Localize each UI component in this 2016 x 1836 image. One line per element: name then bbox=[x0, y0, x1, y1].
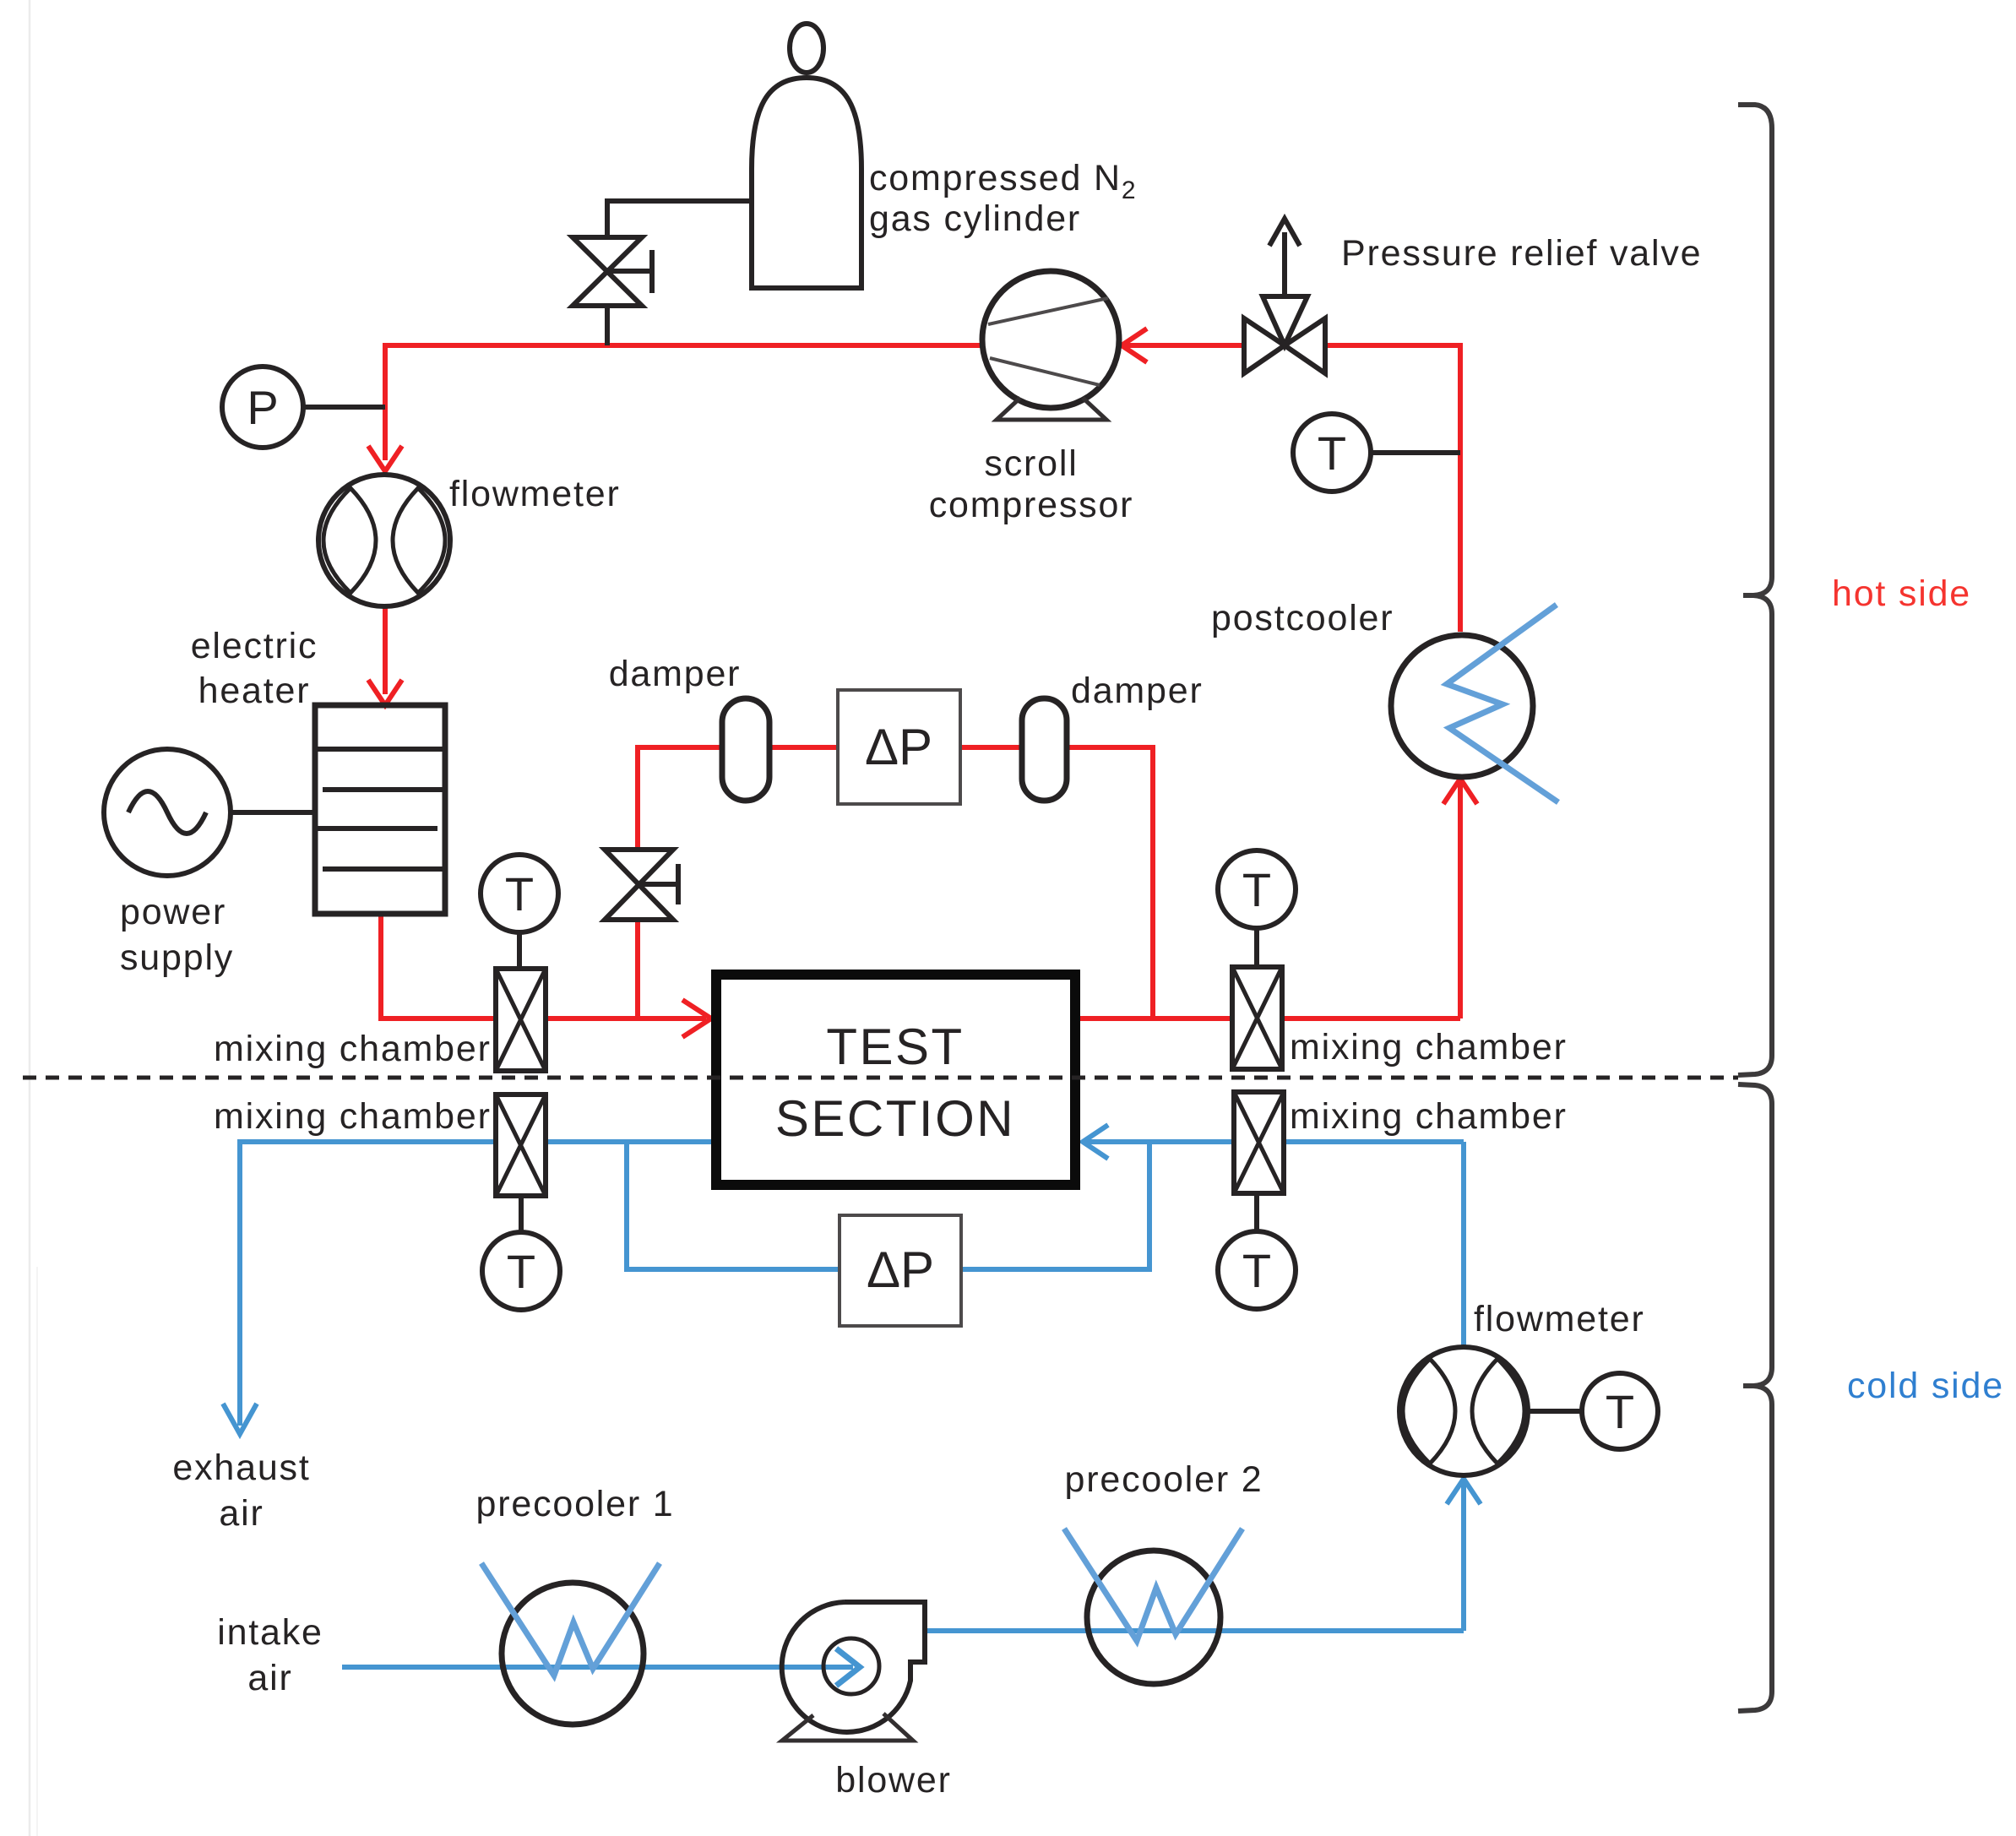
svg-text:precooler 1: precooler 1 bbox=[476, 1484, 675, 1524]
label Pressure relief valve bbox=[1341, 233, 1702, 274]
mixing chamber right hot bbox=[1232, 967, 1282, 1069]
label compressed N2 gas cylinder bbox=[869, 158, 1137, 239]
temperature sensor T3 (hot outlet) bbox=[1218, 850, 1296, 966]
svg-text:SECTION: SECTION bbox=[775, 1090, 1015, 1147]
wire right damper to down-riser (red) bbox=[1065, 747, 1153, 1018]
precooler 2 heat exchanger bbox=[1064, 1529, 1242, 1684]
svg-text:T: T bbox=[505, 867, 534, 921]
svg-text:flowmeter: flowmeter bbox=[449, 474, 621, 514]
wire blower discharge to precooler2 to flowmeter corner (blue) bbox=[926, 1628, 1464, 1633]
temperature sensor T4 (cold inlet) bbox=[1218, 1193, 1296, 1309]
svg-text:precooler 2: precooler 2 bbox=[1065, 1459, 1263, 1500]
label flowmeter cold bbox=[1474, 1299, 1645, 1339]
valve V1 cylinder isolation valve bbox=[573, 237, 652, 306]
svg-text:compressor: compressor bbox=[929, 485, 1134, 525]
svg-text:power: power bbox=[120, 892, 226, 932]
svg-text:compressed N2: compressed N2 bbox=[869, 158, 1137, 204]
temperature sensor T1 (hot inlet) bbox=[481, 855, 558, 969]
svg-text:T: T bbox=[1318, 426, 1346, 480]
label blower bbox=[835, 1760, 951, 1801]
label power supply bbox=[120, 892, 234, 978]
svg-text:electric: electric bbox=[191, 626, 318, 666]
svg-text:air: air bbox=[219, 1493, 264, 1534]
wire cold flowmeter riser upper (blue) bbox=[1461, 1142, 1466, 1349]
label damper right bbox=[1071, 671, 1204, 711]
svg-text:T: T bbox=[1606, 1385, 1634, 1438]
label damper left bbox=[609, 654, 742, 694]
label mixing chamber right cold bbox=[1290, 1096, 1568, 1137]
brace hot side bbox=[1738, 105, 1772, 1075]
postcooler heat exchanger bbox=[1391, 605, 1558, 802]
label precooler 2 bbox=[1065, 1459, 1263, 1500]
power supply AC source bbox=[104, 749, 315, 876]
wire dP transducer to right damper (red) bbox=[959, 745, 1022, 750]
temperature sensor T6 (flowmeter) bbox=[1528, 1373, 1658, 1449]
mixing chamber right cold bbox=[1234, 1092, 1284, 1193]
label scroll compressor bbox=[929, 443, 1134, 525]
wire bypass valve riser up and damper header left segment (red) bbox=[638, 747, 722, 849]
scroll compressor bbox=[982, 271, 1119, 420]
svg-text:postcooler: postcooler bbox=[1211, 598, 1394, 638]
mixing chamber left hot bbox=[496, 969, 546, 1071]
boundary dashed line between hot and cold side bbox=[23, 1076, 1738, 1080]
blower bbox=[782, 1602, 925, 1741]
electric heater bbox=[315, 705, 445, 914]
svg-text:T: T bbox=[1242, 863, 1271, 916]
svg-text:heater: heater bbox=[198, 671, 311, 711]
label hot side bbox=[1832, 573, 1971, 614]
svg-text:mixing chamber: mixing chamber bbox=[214, 1029, 492, 1069]
svg-text:scroll: scroll bbox=[984, 443, 1078, 484]
wire valve V1 to hot header (black) bbox=[605, 306, 610, 345]
wire compressor outlet to relief valve (red) with arrow into compressor bbox=[1121, 329, 1246, 362]
wire flowmeter to electric heater (red) with arrow down bbox=[368, 606, 402, 705]
mixing chamber left cold bbox=[496, 1095, 546, 1196]
compressed N2 gas cylinder bbox=[752, 24, 861, 288]
dP transducer cold bbox=[840, 1215, 961, 1326]
svg-text:hot side: hot side bbox=[1832, 573, 1971, 614]
brace cold side bbox=[1738, 1084, 1772, 1711]
precooler 1 heat exchanger bbox=[481, 1563, 660, 1725]
label mixing chamber right hot bbox=[1290, 1027, 1568, 1067]
temperature sensor T5 (postcooler inlet) bbox=[1293, 414, 1460, 492]
wire cold dP branch right (blue) bbox=[961, 1142, 1149, 1269]
wire relief valve to right riser corner (red) bbox=[1323, 345, 1460, 632]
wire left mixing chamber to test section (red) with big arrow bbox=[544, 1000, 711, 1037]
wire cold main from test section left through mixing chamber to exhaust riser (blue) bbox=[223, 1142, 712, 1434]
wire test section outlet to postcooler riser (red) bbox=[1079, 1016, 1460, 1021]
wire heater outlet down and right to left mixing chamber (red) bbox=[381, 914, 497, 1018]
svg-text:TEST: TEST bbox=[826, 1018, 964, 1075]
svg-text:intake: intake bbox=[217, 1612, 323, 1653]
svg-text:Pressure relief valve: Pressure relief valve bbox=[1341, 233, 1702, 274]
bypass valve V2 bbox=[605, 850, 678, 920]
svg-text:T: T bbox=[507, 1245, 535, 1298]
flowmeter cold side bbox=[1399, 1347, 1528, 1475]
wire bypass valve vertical below (red) bbox=[635, 921, 640, 1018]
label exhaust air bbox=[172, 1448, 310, 1534]
svg-text:damper: damper bbox=[609, 654, 742, 694]
wire intake air line through precooler1 into blower (blue) with arrow bbox=[342, 1649, 860, 1686]
wire damper to dP transducer (red) bbox=[767, 745, 838, 750]
label intake air bbox=[217, 1612, 323, 1698]
label postcooler bbox=[1211, 598, 1394, 638]
svg-text:exhaust: exhaust bbox=[172, 1448, 310, 1488]
svg-text:supply: supply bbox=[120, 937, 234, 978]
label electric heater bbox=[191, 626, 318, 711]
svg-text:P: P bbox=[247, 381, 278, 434]
svg-text:cold side: cold side bbox=[1847, 1366, 2004, 1406]
wire hot top header (red) from P-tap corner to compressor inlet bbox=[385, 343, 985, 348]
label mixing chamber left hot bbox=[214, 1029, 492, 1069]
label cold side bbox=[1847, 1366, 2004, 1406]
wire postcooler bottom riser (red) with arrow up into postcooler bbox=[1443, 779, 1477, 1018]
svg-text:ΔP: ΔP bbox=[867, 1241, 934, 1298]
svg-text:ΔP: ΔP bbox=[865, 719, 932, 775]
damper left bbox=[722, 698, 769, 801]
wire hot riser down to flowmeter (red) with arrow bbox=[368, 343, 402, 471]
pressure relief valve PRV bbox=[1244, 219, 1325, 373]
svg-text:mixing chamber: mixing chamber bbox=[1290, 1027, 1568, 1067]
wire cylinder outlet pipe (black) bbox=[607, 201, 752, 236]
wire cold main from flowmeter riser into test section (blue) with arrow bbox=[1083, 1125, 1464, 1159]
svg-text:air: air bbox=[247, 1658, 292, 1698]
svg-text:damper: damper bbox=[1071, 671, 1204, 711]
svg-text:T: T bbox=[1242, 1244, 1271, 1297]
svg-text:flowmeter: flowmeter bbox=[1474, 1299, 1645, 1339]
label precooler 1 bbox=[476, 1484, 675, 1524]
faint figure-edge artifact line bbox=[30, 0, 37, 1836]
temperature sensor T2 (cold outlet) bbox=[482, 1196, 560, 1310]
wire cold flowmeter riser lower (blue) with arrow up into flowmeter bbox=[1447, 1478, 1481, 1631]
label flowmeter hot bbox=[449, 474, 621, 514]
wire cold dP branch left (blue) bbox=[627, 1142, 840, 1269]
svg-text:mixing chamber: mixing chamber bbox=[1290, 1096, 1568, 1137]
dP transducer hot bbox=[838, 690, 960, 804]
TEST SECTION box bbox=[716, 975, 1075, 1185]
svg-text:mixing chamber: mixing chamber bbox=[214, 1096, 492, 1137]
pressure sensor P bbox=[222, 367, 385, 448]
flowmeter hot side bbox=[318, 475, 450, 606]
svg-text:blower: blower bbox=[835, 1760, 951, 1801]
svg-text:gas cylinder: gas cylinder bbox=[869, 198, 1081, 239]
label mixing chamber left cold bbox=[214, 1096, 492, 1137]
damper right bbox=[1022, 698, 1067, 801]
